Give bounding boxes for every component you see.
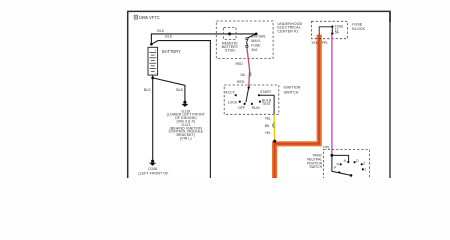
svg-text:BLK: BLK — [144, 88, 151, 92]
svg-text:YEL: YEL — [311, 41, 318, 45]
svg-text:BLK: BLK — [176, 88, 183, 92]
svg-text:40A: 40A — [251, 48, 258, 52]
svg-text:PPL: PPL — [322, 41, 329, 45]
svg-text:START: START — [260, 90, 272, 94]
svg-text:RED: RED — [236, 62, 244, 66]
svg-text:CENTER #1: CENTER #1 — [277, 30, 298, 34]
svg-text:1: 1 — [364, 168, 366, 172]
svg-text:BATTERY: BATTERY — [162, 49, 181, 54]
svg-text:IGNITION: IGNITION — [284, 86, 301, 90]
svg-text:B8: B8 — [265, 124, 269, 128]
svg-text:+: + — [154, 49, 156, 53]
svg-text:−: − — [155, 71, 157, 75]
svg-text:1995 VFTC: 1995 VFTC — [139, 15, 160, 20]
svg-text:SWITCH: SWITCH — [284, 90, 299, 94]
svg-text:RUN: RUN — [252, 106, 260, 110]
svg-text:BLK: BLK — [165, 35, 172, 39]
svg-text:RED: RED — [237, 80, 245, 84]
svg-text:IGN SW1: IGN SW1 — [251, 35, 265, 39]
svg-text:YEL: YEL — [265, 131, 272, 135]
svg-text:OFF: OFF — [238, 106, 245, 110]
svg-text:TEST: TEST — [262, 102, 272, 106]
svg-text:BLOCK: BLOCK — [352, 27, 365, 31]
svg-text:SWITCH: SWITCH — [309, 165, 322, 169]
svg-text:MAXI-: MAXI- — [251, 39, 260, 43]
svg-text:STUD: STUD — [225, 49, 235, 53]
svg-text:ACCY: ACCY — [225, 91, 235, 95]
svg-text:FUSE: FUSE — [251, 44, 261, 48]
svg-text:(LEFT FRONT OF: (LEFT FRONT OF — [138, 171, 169, 175]
svg-text:D6: D6 — [241, 73, 246, 77]
svg-text:2: 2 — [363, 162, 365, 166]
svg-text:LOCK: LOCK — [228, 100, 238, 104]
svg-text:BLK: BLK — [157, 29, 164, 33]
svg-text:YEL: YEL — [265, 117, 272, 121]
svg-text:FUSE: FUSE — [352, 22, 363, 26]
svg-text:(VIN L): (VIN L) — [180, 137, 192, 141]
